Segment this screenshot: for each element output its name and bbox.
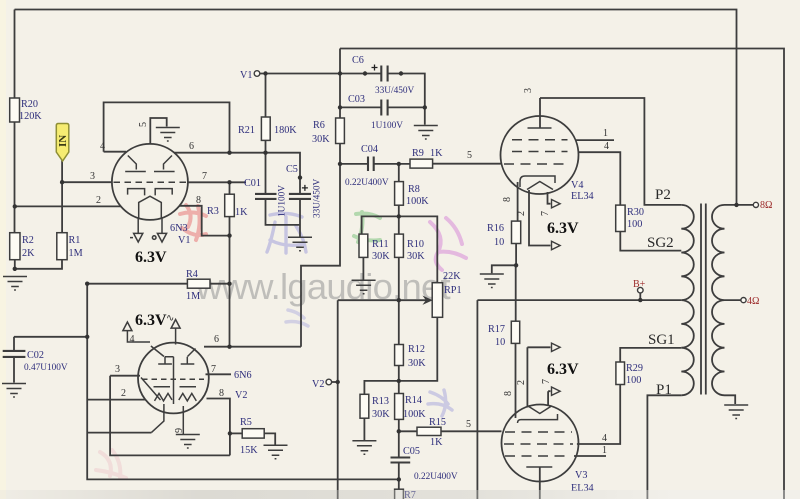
svg-text:R30: R30	[627, 207, 644, 218]
junction C5 top	[298, 175, 302, 179]
wire V3 plate stem down	[539, 467, 541, 499]
svg-text:0.47U100V: 0.47U100V	[24, 363, 68, 373]
svg-text:C6: C6	[352, 55, 364, 66]
junction V2 pin8 / R5 node	[228, 431, 232, 435]
wire R13 bottom to ground	[363, 418, 365, 440]
capacitor C6 plates	[381, 66, 387, 82]
wire V1 pin5 to internal ground	[150, 118, 166, 144]
svg-text:4Ω: 4Ω	[747, 296, 759, 307]
resistor R16	[512, 221, 521, 243]
svg-text:7: 7	[541, 379, 552, 384]
wire left rail between R20 and R2	[14, 122, 16, 233]
wire V3 pin1 stub	[574, 455, 606, 457]
svg-text:1M: 1M	[69, 248, 83, 259]
svg-text:4: 4	[604, 141, 609, 152]
capacitor C01 plates	[255, 194, 277, 199]
wire R16 bottom node	[515, 244, 517, 266]
capacitor C03 plates	[381, 100, 387, 116]
svg-text:R16: R16	[487, 223, 504, 234]
svg-text:100: 100	[626, 375, 641, 386]
terminal V1	[254, 71, 260, 77]
svg-text:6.3V: 6.3V	[135, 312, 167, 329]
ground for R16/R17 node	[480, 274, 504, 288]
wire cathode ground spur	[492, 265, 516, 273]
wire V1 plate box pins 4-6	[104, 102, 230, 152]
capacitor C05 plates	[391, 458, 411, 463]
svg-text:5: 5	[138, 122, 149, 127]
V4 grid rows dashed	[512, 139, 568, 141]
svg-text:180K: 180K	[274, 125, 297, 136]
wire V2 output terminal link	[332, 381, 338, 383]
V3 heater arrow upper	[552, 343, 561, 351]
secondary winding	[712, 205, 725, 395]
V2 right cathode	[179, 387, 197, 401]
svg-text:C04: C04	[361, 144, 378, 155]
pentode V4 EL34 envelope	[501, 116, 579, 194]
svg-text:30K: 30K	[372, 251, 390, 262]
capacitor C04 plates	[368, 157, 374, 172]
bottom photo edge band	[0, 490, 800, 499]
svg-text:8: 8	[196, 195, 201, 206]
ground for R2/R1	[3, 277, 27, 291]
junction C6 right lead	[399, 71, 403, 75]
svg-text:6: 6	[189, 141, 194, 152]
wire V1 pin8	[179, 206, 230, 236]
resistor R17	[511, 321, 519, 343]
potentiometer RP1 body	[432, 283, 442, 318]
svg-text:R1: R1	[69, 235, 81, 246]
wire C02 bottom to ground	[13, 357, 15, 383]
resistor R7 (cut off at bottom)	[395, 489, 404, 499]
V4 heater arrow lower	[552, 241, 561, 249]
junction C03 left / HT bus	[338, 105, 342, 109]
svg-text:4: 4	[130, 334, 135, 345]
V4 beam plate	[527, 182, 553, 190]
svg-text:6.3V: 6.3V	[547, 220, 579, 237]
wire B+ rail	[477, 300, 681, 499]
svg-text:2K: 2K	[22, 248, 35, 259]
wire V2 pin8 to R5	[207, 399, 230, 456]
resistor R4	[187, 279, 210, 288]
svg-text:1: 1	[603, 128, 608, 139]
core laminations	[701, 204, 706, 395]
primary winding P2-SG2-B+-SG1-P1	[681, 205, 694, 395]
svg-text:9: 9	[174, 428, 185, 433]
svg-text:30K: 30K	[312, 134, 330, 145]
junction C04-R9 node	[397, 162, 401, 166]
junction R12 bottom node	[397, 379, 401, 383]
svg-text:R15: R15	[429, 417, 446, 428]
svg-text:3: 3	[90, 171, 95, 182]
resistor R15	[417, 427, 441, 435]
resistor R29	[616, 362, 625, 385]
svg-text:R4: R4	[186, 269, 198, 280]
svg-text:3: 3	[115, 364, 120, 375]
V1 right anode	[154, 156, 175, 172]
wire R17 bottom into V3	[515, 343, 517, 418]
svg-text:7: 7	[202, 171, 207, 182]
capacitor C5 plates	[289, 194, 311, 199]
V3 anode plate	[526, 466, 552, 468]
wire node to R17	[515, 265, 517, 321]
svg-text:1K: 1K	[430, 437, 443, 448]
junction R3 bottom / V1 pin8	[227, 233, 231, 237]
wire 8-ohm output	[725, 204, 754, 206]
V2 pin3 internal lead	[141, 378, 161, 401]
svg-text:8: 8	[219, 388, 224, 399]
wire V4 pin1 stub	[576, 139, 615, 141]
wire V4 heater pin2	[529, 190, 551, 246]
wire R15 leads	[399, 430, 502, 432]
svg-text:100K: 100K	[406, 196, 429, 207]
wire V1 pin4	[104, 151, 126, 153]
svg-text:6: 6	[214, 334, 219, 345]
wire V2 output node down	[337, 300, 339, 499]
svg-text:100: 100	[627, 219, 642, 230]
svg-text:5: 5	[466, 419, 471, 430]
svg-text:R29: R29	[626, 363, 643, 374]
wire V3 pin4 to R29	[577, 385, 620, 445]
V4 anode plate	[528, 127, 552, 129]
svg-text:V2: V2	[235, 390, 247, 401]
resistor R30	[616, 205, 625, 231]
wire 4-ohm output	[725, 299, 741, 301]
polarity + of C6	[372, 65, 378, 71]
wire R9 leads	[399, 163, 502, 165]
svg-text:6N3: 6N3	[170, 223, 188, 234]
junction V1 pin2 / left rail	[13, 204, 17, 208]
V2 grid dashed	[142, 378, 204, 380]
pentode V3 EL34 envelope	[502, 405, 579, 482]
wire C02 top lead	[14, 337, 87, 351]
junction R21/C01 node	[263, 151, 267, 155]
svg-text:R11: R11	[372, 239, 389, 250]
wire R5 left lead	[230, 432, 242, 434]
svg-text:V2: V2	[312, 379, 324, 390]
V2 heater arrow left pin4	[123, 322, 150, 342]
junction C03 right	[423, 105, 427, 109]
junction HT bus / V1 row	[338, 71, 342, 75]
svg-text:5: 5	[467, 150, 472, 161]
resistor R20	[10, 98, 20, 122]
wire mid bus x=399 R8 to R10	[398, 164, 400, 234]
wire second top bus from HT node to right edge down	[340, 49, 784, 499]
svg-text:30K: 30K	[408, 358, 426, 369]
wire R1 bottom joining R2 ground	[15, 260, 62, 269]
resistor R6	[336, 118, 345, 144]
svg-text:B+: B+	[633, 279, 646, 290]
wire RP1 bottom to R12 node	[399, 317, 438, 381]
V1 left anode	[125, 156, 146, 172]
wire R3 leads	[229, 182, 231, 235]
terminal 4 ohm	[741, 298, 746, 303]
ground for V2 cathode	[176, 435, 200, 449]
svg-text:IN: IN	[57, 135, 69, 147]
wire HT vertical bus x=340	[301, 49, 340, 347]
wire RP1 wiper feed	[338, 299, 427, 301]
wire R4 left lead to left column	[87, 283, 187, 285]
wire R11 bottom to ground	[362, 257, 364, 279]
V4 heater arrow upper	[552, 200, 561, 208]
svg-text:10: 10	[494, 237, 504, 248]
svg-text:2: 2	[96, 195, 101, 206]
wire C03 leads	[340, 106, 425, 108]
terminal V2	[326, 379, 332, 385]
svg-text:2: 2	[516, 380, 527, 385]
wire V3 heater lower	[548, 391, 550, 406]
junction V2 pin6 node	[227, 345, 231, 349]
svg-text:6.3V: 6.3V	[547, 361, 579, 378]
output transformer T1	[681, 204, 724, 396]
wire V1 pin2 cathode	[15, 205, 122, 207]
wire left column x=87	[87, 284, 399, 480]
resistor R14	[395, 394, 404, 420]
svg-text:R6: R6	[313, 120, 325, 131]
wire C04 leads	[340, 163, 399, 165]
potentiometer RP1 wiper arrow	[424, 297, 432, 304]
wire C6 leads	[340, 74, 425, 108]
capacitor C02 plates	[3, 351, 26, 357]
triode V1 6N3 envelope	[112, 144, 188, 220]
junction R4 left node	[85, 282, 89, 286]
polarity + of C5	[302, 185, 308, 191]
svg-text:V4: V4	[571, 180, 583, 191]
svg-text:R3: R3	[207, 206, 219, 217]
junction R4 right node	[227, 282, 231, 286]
svg-text:R12: R12	[408, 344, 425, 355]
wire C5 bottom to ground	[299, 199, 301, 237]
wire C03/C6 ground drop	[424, 107, 426, 124]
wire V1 pin7	[188, 181, 246, 183]
junction R10 bottom / wiper node	[397, 298, 401, 302]
wire R2 bottom to ground node	[14, 260, 16, 271]
V1 heater circle mark	[152, 236, 156, 240]
wire mid bus R12 to R14	[398, 366, 400, 394]
svg-text:7: 7	[540, 211, 551, 216]
wire V1 node to bus	[260, 73, 340, 75]
svg-text:C01: C01	[244, 178, 261, 189]
wire mid bus R14 to C05	[398, 419, 400, 457]
wire B+ terminal stem	[639, 293, 641, 300]
wire R5 right lead to ground	[264, 433, 275, 444]
svg-text:EL34: EL34	[571, 191, 594, 202]
svg-text:R21: R21	[238, 125, 255, 136]
ground for R11	[352, 280, 376, 294]
junction IN / V1 grid node	[60, 180, 64, 184]
svg-text:R17: R17	[488, 324, 505, 335]
ground for R5	[264, 445, 288, 459]
V3 heater arrow lower	[552, 387, 561, 395]
V2 bottom lead left	[152, 404, 164, 432]
wire R30 bottom to SG2 tap	[620, 232, 681, 251]
svg-text:C02: C02	[27, 350, 44, 361]
svg-text:1K: 1K	[235, 207, 248, 218]
svg-text:6N6: 6N6	[234, 370, 252, 381]
wire V4 cathode pin to R16	[517, 182, 519, 221]
junction R1-R2 ground node	[13, 267, 17, 271]
wire R3 node down to R4 node and V2 pin6 riser	[229, 236, 231, 347]
svg-text:2: 2	[516, 211, 527, 216]
V1 grid dashed	[114, 181, 188, 183]
junction R16-R17 ground node	[514, 263, 518, 267]
svg-text:8: 8	[503, 391, 514, 396]
junction C02 node	[85, 335, 89, 339]
V1 heater arrow left	[130, 233, 143, 242]
svg-text:P1: P1	[656, 382, 672, 398]
junction 8-ohm node	[734, 203, 738, 207]
resistor R10	[395, 234, 404, 257]
wire R4 right lead	[210, 283, 230, 285]
svg-text:P2: P2	[655, 187, 671, 203]
junction R14-R15 node	[397, 429, 401, 433]
wire V2 pin7 stub	[206, 373, 232, 375]
svg-text:8Ω: 8Ω	[760, 200, 772, 211]
terminal B+	[638, 287, 644, 293]
svg-text:∿: ∿	[166, 313, 174, 324]
svg-text:1K: 1K	[430, 148, 443, 159]
wire V1 pin6 line to C5 branch	[174, 153, 300, 194]
resistor R21	[261, 117, 270, 140]
wire left rail top	[14, 10, 16, 99]
wire secondary bottom to ground	[725, 395, 736, 404]
ground for C01/C5	[288, 237, 312, 251]
resistor R13	[360, 394, 369, 418]
svg-text:R2: R2	[22, 235, 34, 246]
wire P1 from primary bottom	[647, 395, 681, 499]
wire V1 pin3 grid	[62, 181, 112, 183]
wire V4 plate stem	[539, 98, 541, 128]
wire mid bus R10 to R12	[398, 257, 400, 344]
svg-text:8: 8	[502, 197, 513, 202]
svg-text:R5: R5	[240, 417, 252, 428]
svg-text:7: 7	[211, 364, 216, 375]
svg-text:C05: C05	[403, 446, 420, 457]
WIRES2	[10, 98, 625, 499]
V1 heater filament	[139, 196, 162, 217]
junction V1 pin7 / R3 top	[227, 180, 231, 184]
wire V2 pin1 hook	[87, 432, 151, 434]
svg-text:R13: R13	[372, 396, 389, 407]
svg-text:2: 2	[121, 388, 126, 399]
watermark glyphs (colored stamp characters)	[96, 205, 466, 478]
svg-text:1U100V: 1U100V	[371, 121, 403, 131]
svg-text:22K: 22K	[443, 271, 461, 282]
svg-text:RP1: RP1	[444, 285, 462, 296]
svg-text:30K: 30K	[407, 251, 425, 262]
junction C05-R7 node	[397, 477, 401, 481]
V1 heater pin stems	[138, 218, 162, 234]
resistor R5	[242, 429, 264, 438]
svg-text:0.22U400V: 0.22U400V	[414, 472, 458, 482]
resistor R12	[395, 345, 404, 366]
wire C05 bottom to R7	[398, 463, 400, 490]
input jack IN	[56, 124, 69, 162]
svg-text:120K: 120K	[19, 111, 42, 122]
wire C01 leads	[266, 153, 301, 225]
wire R8/R10 node to R11 and RP1 top	[362, 216, 438, 282]
wire V2 pin3 frame	[110, 376, 230, 456]
svg-text:4: 4	[602, 433, 607, 444]
wire IN jack to grid node down to R1	[61, 159, 63, 233]
wire V4 pin4 to R30	[578, 152, 620, 205]
junction R8-R10 node	[397, 214, 401, 218]
V3 cathode bracket	[518, 414, 558, 423]
junction C04 left / bus	[338, 162, 342, 166]
svg-text:SG1: SG1	[648, 332, 675, 348]
svg-text:V1: V1	[178, 235, 190, 246]
ground for speaker secondary	[724, 405, 748, 419]
V2 center shield	[165, 357, 174, 404]
V3 grid rows dashed	[505, 431, 572, 433]
junction B+ tap	[638, 298, 642, 302]
svg-text:R9: R9	[412, 148, 424, 159]
ground for R13	[352, 441, 376, 455]
svg-text:0.22U400V: 0.22U400V	[345, 178, 389, 188]
resistor R9	[410, 159, 433, 168]
junction V2 terminal node	[336, 380, 340, 384]
V2 left cathode	[154, 387, 173, 401]
wire V3 heater upper	[527, 347, 550, 407]
terminal 8 ohm	[753, 202, 758, 207]
svg-text:SG2: SG2	[647, 235, 674, 251]
svg-text:15K: 15K	[240, 445, 258, 456]
svg-text:100K: 100K	[403, 409, 426, 420]
resistor R3	[225, 194, 235, 216]
junction V1 supply node	[263, 71, 267, 75]
svg-text:1: 1	[602, 445, 607, 456]
wire V4 heater pin7	[548, 192, 551, 204]
V3 beam plate	[528, 406, 552, 414]
V1 left cathode	[128, 189, 145, 196]
svg-text:R8: R8	[408, 184, 420, 195]
svg-text:C5: C5	[286, 164, 298, 175]
svg-text:R10: R10	[407, 239, 424, 250]
svg-text:33U/450V: 33U/450V	[313, 178, 323, 218]
wire R13 riser	[364, 381, 398, 394]
wire V2 pin6 line across to coupling bus	[204, 346, 301, 348]
svg-text:V1: V1	[240, 70, 252, 81]
junction V1 plate box node	[227, 151, 231, 155]
svg-text:1M: 1M	[186, 291, 200, 302]
triode V2 6N6 envelope	[138, 343, 209, 414]
wire V2 pin2	[87, 399, 146, 401]
svg-text:4: 4	[100, 141, 105, 152]
V4 cathode bracket	[520, 176, 555, 187]
V1 right cathode	[155, 189, 172, 196]
svg-text:6.3V: 6.3V	[135, 249, 167, 266]
wire R29 top to SG1 tap	[620, 348, 681, 362]
wire top bus from left rail to 8-ohm node	[15, 10, 737, 205]
svg-text:1U100V: 1U100V	[278, 185, 288, 217]
V2 heater arrow right	[171, 320, 180, 345]
ground inside V1 pin5	[156, 128, 180, 142]
ground for C6/C03	[414, 126, 438, 140]
resistor R8	[395, 182, 404, 206]
svg-text:V3: V3	[575, 470, 587, 481]
resistor R1	[57, 233, 67, 260]
svg-text:3: 3	[523, 88, 534, 93]
svg-text:10: 10	[495, 337, 505, 348]
svg-text:R14: R14	[405, 395, 422, 406]
resistor R2	[10, 233, 20, 260]
wire V4 plate to P2	[540, 98, 681, 205]
V2 bottom lead right pin9	[182, 406, 184, 434]
resistor R11	[359, 234, 368, 257]
svg-text:R20: R20	[21, 99, 38, 110]
ground for C02	[2, 384, 26, 398]
V1 heater arrow right	[157, 233, 166, 242]
V2 left anode	[151, 346, 172, 364]
